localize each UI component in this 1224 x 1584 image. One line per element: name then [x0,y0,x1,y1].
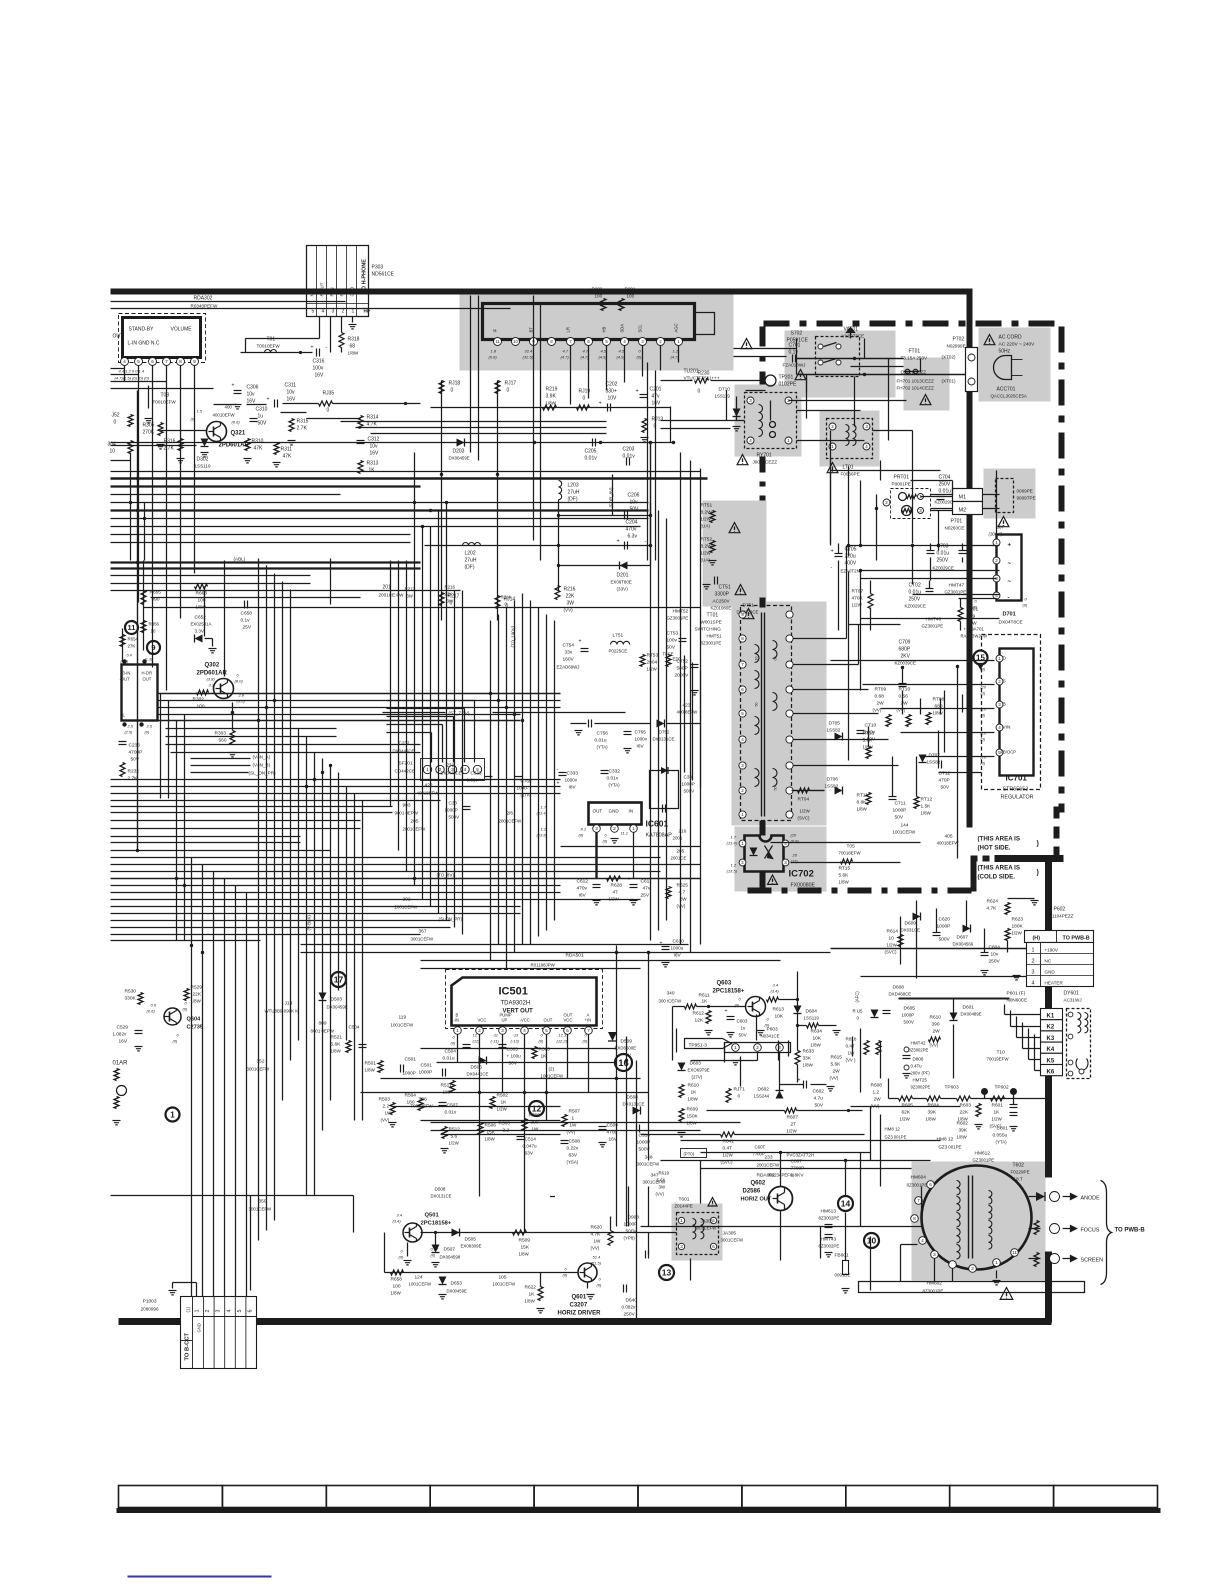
svg-text:2904: 2904 [647,660,658,666]
svg-text:2W: 2W [901,701,909,707]
svg-text:15K: 15K [521,1245,530,1251]
label C607 [787,1153,815,1179]
diode D507 [432,1231,461,1267]
svg-text:R503: R503 [379,1097,391,1103]
svg-text:R529: R529 [191,985,203,991]
svg-text:1v: 1v [741,1026,747,1031]
svg-text:8.2W: 8.2W [701,510,713,516]
svg-text:10: 10 [513,339,518,344]
svg-text:DX0229CE: DX0229CE [737,610,759,615]
svg-text:2.5: 2.5 [127,724,134,729]
svg-text:3W: 3W [407,594,413,599]
svg-text:1SS119: 1SS119 [195,464,211,469]
svg-text:VIN: VIN [1003,725,1012,731]
label P303 [372,265,395,278]
capacitor D640 [620,1285,645,1324]
svg-text:1.7: 1.7 [731,835,737,840]
svg-text:1SS82: 1SS82 [825,784,839,789]
svg-text:RJT1: RJT1 [734,1087,746,1093]
svg-text:201: 201 [383,585,392,591]
svg-text:R314: R314 [367,415,379,421]
svg-text:RJ14: RJ14 [501,595,512,600]
svg-text:RT09: RT09 [875,687,887,693]
svg-text:(-11): (-11) [491,1039,500,1044]
svg-text:PVC3ZAT72H: PVC3ZAT72H [787,1153,815,1158]
connector P702 [942,337,978,392]
svg-text:C2735: C2735 [187,1025,203,1031]
svg-text:GND: GND [1045,970,1056,975]
node 14 [838,1196,853,1211]
focus tap [1034,1221,1100,1235]
svg-text:11: 11 [495,339,500,344]
transistor T03 [145,386,177,423]
svg-text:C505: C505 [507,1047,519,1053]
diode D707 [919,753,941,765]
svg-text:FH701 1013CEZZ: FH701 1013CEZZ [897,379,934,384]
transformer T601 [675,1197,745,1255]
resistor R625 [666,883,688,909]
label T10 [987,1050,1010,1062]
wire hot-side dash-dot bottom [748,888,977,894]
capacitor C704 [935,475,957,505]
switch S702 [787,328,860,377]
svg-text:K6: K6 [1047,1070,1055,1076]
flyback transformer T602 [911,1166,1032,1273]
connector P303 TO H-PHONE [307,246,370,317]
transistor Q601 [563,1255,603,1299]
svg-text:1/8W: 1/8W [957,1135,968,1140]
resistor R663 [195,584,208,610]
svg-text:VCC: VCC [564,1018,573,1023]
svg-text:1/8W: 1/8W [926,1117,937,1122]
label 119 [391,1015,415,1028]
capacitor C233 [119,742,143,763]
resistor R611 [673,993,746,1010]
svg-text:RT12: RT12 [921,797,933,803]
svg-text:C610: C610 [673,939,685,945]
resistor R511 [441,1081,456,1096]
svg-text:1/2W: 1/2W [647,667,658,672]
svg-text:180K: 180K [1012,924,1024,930]
svg-text:JA305: JA305 [723,1231,737,1237]
capacitor C658 [241,601,253,631]
thermistor RT51 [701,503,716,529]
svg-text:350: 350 [259,1199,267,1205]
svg-text:R634: R634 [811,1029,823,1035]
svg-text:DY601: DY601 [1064,991,1080,997]
svg-text:HM8 12: HM8 12 [885,1127,901,1132]
svg-text:1K: 1K [691,1090,698,1096]
svg-text:-: - [645,539,647,545]
svg-text:L751: L751 [613,633,624,639]
shaded area AC cord ACC701 [979,328,1051,402]
svg-text:(SVC): (SVC) [798,816,810,821]
svg-text:KZ01080E: KZ01080E [711,606,732,611]
svg-text:D203: D203 [453,449,465,455]
svg-text:2.5: 2.5 [146,724,153,729]
label 2/6 [499,811,687,861]
svg-text:DX00459E: DX00459E [327,1005,348,1010]
diode D505b [452,1229,482,1249]
wire mesh [111,296,1047,1323]
svg-text:1/2W: 1/2W [1012,931,1023,936]
svg-text:2.2: 2.2 [383,1104,390,1110]
resistor EZ01 [666,655,681,667]
svg-text:(20: (20 [981,686,987,690]
svg-text:CT51: CT51 [719,585,731,591]
svg-text:12: 12 [473,1033,478,1038]
svg-text:1.5K: 1.5K [921,804,932,810]
svg-text:RJ35: RJ35 [323,391,335,397]
svg-text:1.8KV: 1.8KV [791,1173,805,1179]
IC IF block [120,659,158,734]
svg-text:2W: 2W [877,701,885,707]
resistor R506 [522,1113,540,1132]
svg-text:R604: R604 [928,1103,940,1109]
svg-text:27uH: 27uH [568,490,580,496]
svg-text:): ) [1037,841,1039,848]
svg-text:DX031CE: DX031CE [901,928,921,933]
Q604 volts [147,1001,189,1044]
svg-text:C754: C754 [563,643,575,649]
svg-text:C620: C620 [939,917,951,923]
svg-text:3: 3 [332,309,335,315]
svg-text:IF: IF [493,328,498,332]
svg-text:0.01v: 0.01v [585,456,598,462]
resistor R521 [331,1035,352,1054]
svg-text:RT04: RT04 [798,797,810,803]
svg-text:2PC18158+: 2PC18158+ [713,989,745,995]
svg-text:2001CEFW: 2001CEFW [757,1163,781,1168]
svg-text:TT01: TT01 [707,613,719,619]
capacitor C533 [467,771,493,783]
svg-text:C604: C604 [989,945,1001,951]
svg-text:10v: 10v [991,952,999,958]
svg-text:T602: T602 [1013,1163,1025,1169]
resistor R641 [641,1132,865,1165]
resistor R621 [550,1196,555,1198]
label D751 [737,603,759,615]
svg-text:TP603: TP603 [945,1085,959,1091]
svg-text:1/2W: 1/2W [497,1107,508,1112]
svg-text:RY701: RY701 [757,453,772,459]
svg-text:8Z3001PE: 8Z3001PE [701,641,722,646]
svg-text:+: + [579,639,582,645]
svg-text:(YP8): (YP8) [624,1236,636,1241]
svg-text:+IN: +IN [585,1018,592,1023]
svg-text:HMT48: HMT48 [926,617,942,623]
svg-text:1/8W: 1/8W [857,807,868,812]
svg-text:TO PWB-B: TO PWB-B [1063,936,1090,942]
svg-text:L203: L203 [568,483,579,489]
svg-text:R502: R502 [497,1093,509,1099]
svg-text:UP: UP [502,1018,508,1023]
capacitor C765 [624,730,648,753]
capacitor C604 [981,945,1001,975]
svg-text:D653: D653 [451,1281,463,1287]
svg-text:1/8W: 1/8W [933,711,944,716]
svg-text:P603: P603 [767,1027,779,1033]
svg-text:OUT: OUT [143,677,152,682]
svg-text:R607: R607 [787,1115,799,1121]
svg-text:D607: D607 [957,935,969,941]
svg-text:T0010EFW: T0010EFW [257,344,281,349]
svg-text:): ) [1037,870,1039,877]
svg-text:2W: 2W [933,1029,941,1035]
svg-text:70018EFW: 70018EFW [839,851,862,856]
svg-text:(3): (3) [981,692,986,696]
resistor R634 [798,1023,841,1048]
svg-text:367: 367 [419,929,427,935]
svg-text:4700P: 4700P [129,750,143,756]
svg-text:RJ17: RJ17 [505,381,517,387]
capacitor CT12 [939,761,951,791]
svg-text:(0): (0) [191,417,197,422]
connector P1003 TO B-CCT [181,1297,257,1369]
svg-text:51.4: 51.4 [593,1255,602,1260]
svg-text:2/6: 2/6 [507,811,514,816]
svg-text:2W: 2W [833,1069,841,1075]
resistor R505 [532,1047,550,1060]
svg-text:PRT01: PRT01 [894,475,910,481]
svg-text:R501: R501 [365,1061,377,1067]
svg-text:1001CEFW: 1001CEFW [493,1282,517,1287]
svg-text:2T: 2T [791,1122,797,1128]
capacitor C514 [517,1137,537,1157]
capacitor C705 [831,544,862,631]
capacitor HM613 [819,1209,840,1228]
svg-text:D908: D908 [628,1215,640,1221]
svg-text:(0.6): (0.6) [232,420,241,425]
svg-text:200V (PF): 200V (PF) [911,1071,931,1076]
svg-text:AC250V: AC250V [713,599,731,604]
svg-text:C206: C206 [628,493,640,499]
resistor R506a [478,1123,496,1142]
svg-text:0.22v: 0.22v [567,1146,579,1152]
svg-text:560: 560 [219,738,227,744]
diode D601 [899,999,1010,1079]
svg-text:0: 0 [507,388,510,394]
svg-text:2: 2 [1032,959,1035,965]
resistor R602 [957,1104,983,1140]
capacitor C33x [445,767,696,820]
label Q601 [558,1295,602,1317]
svg-text:QACCL3025CE5A: QACCL3025CE5A [991,394,1027,399]
svg-text:C501: C501 [421,1063,433,1069]
capacitor C754 [557,639,589,670]
svg-text:EX08309E: EX08309E [461,1244,482,1249]
svg-text:3001CEFW: 3001CEFW [411,937,435,942]
svg-text:1/2W: 1/2W [701,551,712,556]
svg-text:R311: R311 [281,447,293,453]
svg-text:(3.4): (3.4) [771,989,780,994]
svg-text:4.4 1.2 0 0 1.4: 4.4 1.2 0 0 1.4 [119,369,145,374]
resistor R305 [143,423,165,449]
svg-text:330K: 330K [125,996,137,1002]
svg-text:50V: 50V [509,1061,518,1067]
svg-text:C33: C33 [449,801,458,806]
svg-text:(YTA): (YTA) [996,1140,1008,1145]
svg-text:R230: R230 [698,371,710,377]
label 307 [989,525,1005,537]
label T06 [411,1097,434,1109]
shaded area FT01 fuse [904,358,950,411]
label 423 [677,703,699,715]
label 01AR [113,1061,129,1067]
svg-text:150K: 150K [687,1114,699,1120]
svg-text:Q602: Q602 [751,1181,766,1187]
connector P603 [691,1027,791,1091]
svg-text:DX00459E: DX00459E [447,1289,467,1294]
svg-text:P0225CE: P0225CE [609,649,628,654]
svg-text:R318: R318 [348,337,360,343]
svg-text:2001CE FW: 2001CE FW [379,593,405,598]
svg-text:P1003: P1003 [143,1299,157,1305]
diode D503 [319,993,348,1010]
svg-text:C704: C704 [939,475,951,481]
svg-text:1W: 1W [570,1123,578,1128]
svg-text:(1): (1) [186,1306,191,1312]
resistor R655 [141,590,161,605]
capacitor D608b [624,1215,649,1259]
svg-text:~: ~ [1008,562,1012,568]
svg-text:RT08: RT08 [933,697,945,703]
resistor RT04 [792,788,825,821]
svg-text:0.4T: 0.4T [723,1146,733,1152]
svg-text:1000P: 1000P [624,1222,638,1228]
box above bottom border [859,1282,1085,1293]
svg-text:1K: 1K [994,1110,1001,1116]
svg-text:R310: R310 [252,439,264,445]
svg-text:8Z3001PE: 8Z3001PE [907,1183,928,1188]
capacitor HMT42 [903,1041,931,1090]
svg-text:S702: S702 [791,331,803,337]
capacitor C507 [439,1103,459,1116]
svg-text:DX0131CE: DX0131CE [653,737,675,742]
svg-text:(13.5): (13.5) [727,869,738,874]
svg-text:50V: 50V [739,1033,748,1038]
svg-text:1K: 1K [529,1292,536,1298]
svg-text:AC CORD: AC CORD [999,335,1022,341]
label 105 [493,1275,517,1287]
svg-text:100v: 100v [667,638,678,644]
svg-text:M2: M2 [959,508,967,514]
svg-text:500V: 500V [904,1020,914,1025]
svg-text:K4: K4 [1047,1047,1055,1053]
label FOR_8V [609,487,614,508]
svg-text:(DF): (DF) [465,565,475,571]
svg-text:14: 14 [841,1198,851,1208]
svg-text:39K: 39K [928,1110,937,1116]
resistor RJ35 [283,391,421,414]
resistor RT01 [958,599,997,631]
node 12 [529,1101,544,1116]
label 201 [379,585,405,598]
warning triangle flyback [1000,1288,1013,1300]
svg-text:10: 10 [110,449,116,455]
resistor R512 [441,1127,461,1153]
svg-text:4.7K: 4.7K [987,906,998,912]
svg-text:1K: 1K [369,468,376,474]
label P601 [1007,991,1028,1003]
resistor RJ17 [495,381,516,394]
svg-text:R216: R216 [445,585,456,590]
svg-text:119: 119 [399,1015,407,1021]
svg-text:R504: R504 [405,1093,417,1099]
resistor R609 [678,1107,699,1137]
svg-text:C332: C332 [609,769,621,775]
diode D302 [195,439,211,469]
svg-text:1000P: 1000P [403,1071,416,1076]
svg-text:0.56: 0.56 [899,694,909,700]
IC tuner TU201 [483,304,715,360]
svg-text:25V: 25V [641,893,650,899]
svg-text:F0229PE: F0229PE [1011,1170,1030,1175]
svg-text:1: 1 [352,309,355,315]
diode D505 [467,1057,489,1077]
wire mesh 2 [111,349,1000,1233]
diode D603 [678,1061,710,1080]
svg-text:500V: 500V [939,937,951,943]
svg-text:62K: 62K [902,1110,911,1116]
svg-text:R313: R313 [367,461,379,467]
resistor R202 [592,287,607,311]
label 340 [659,991,683,1004]
svg-text:(UA): (UA) [701,524,711,529]
svg-text:-13: -13 [513,1033,520,1038]
label P1003 [141,1299,159,1312]
svg-text:EX02531A: EX02531A [191,622,212,627]
IC IC501 vertical out [446,970,603,1035]
svg-text:3001CEFW: 3001CEFW [695,1226,717,1231]
svg-text:CT02: CT02 [909,583,921,589]
svg-text:12: 12 [532,1103,542,1113]
svg-text:1/2W: 1/2W [900,1117,911,1122]
test point TP201 [765,375,797,388]
svg-text:(VV): (VV) [564,608,574,613]
svg-text:400: 400 [225,405,233,410]
svg-text:C333: C333 [567,771,579,777]
svg-text:CT10: CT10 [865,723,877,729]
svg-text:RDA302: RDA302 [194,296,213,302]
svg-text:160V: 160V [563,657,575,663]
svg-text:AC 220V ~ 240V: AC 220V ~ 240V [999,342,1036,348]
resistor R219 [543,387,558,411]
svg-text:(2): (2) [549,1067,555,1072]
svg-text:470v: 470v [626,527,637,533]
label 903 [395,803,419,816]
svg-text:1W: 1W [594,1239,602,1244]
svg-text:AC31WJ: AC31WJ [1064,998,1082,1003]
svg-text:5.6K: 5.6K [657,1178,666,1183]
screen tap [1034,1253,1103,1267]
svg-text:C514: C514 [525,1137,537,1143]
svg-text:1000v: 1000v [635,737,648,742]
svg-text:R609: R609 [687,1107,699,1113]
svg-text:R658: R658 [391,1277,403,1283]
resistor R658 [391,1270,404,1296]
svg-text:(TO_8V): (TO_8V) [437,873,455,878]
svg-text:(YSA): (YSA) [567,1160,579,1165]
resistor R311 [273,443,293,467]
label 205 [403,819,427,832]
resistor R608 [871,1083,883,1109]
svg-text:1.5: 1.5 [197,409,203,414]
svg-text:(VV): (VV) [677,904,686,909]
resistor R614 [885,929,904,955]
svg-text:R: R [340,293,345,296]
svg-text:2001CEFW: 2001CEFW [499,819,523,824]
